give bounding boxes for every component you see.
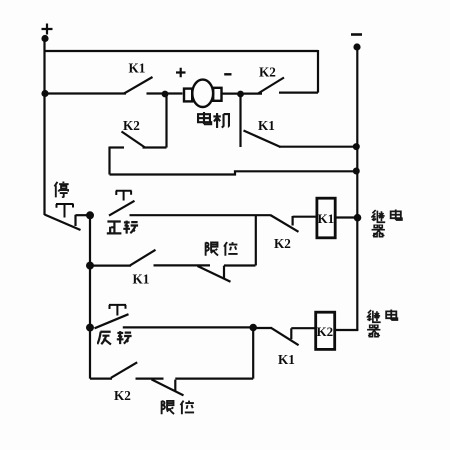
wire: reverse holding riser: [252, 328, 254, 379]
pushbutton 停 (stop, NC) actuator: [56, 204, 74, 218]
label: K1 interlock: [278, 352, 295, 367]
wire: right supply rail: [356, 47, 358, 330]
pushbutton 正转 (forward, NO) actuator: [116, 191, 132, 201]
pushbutton 正转 contact arm: [109, 201, 135, 216]
wire: reverse button to holding junction: [123, 326, 253, 328]
label: relay 继电器 (upper): [372, 210, 402, 237]
label: motor name 电机: [198, 112, 230, 128]
limit switch 限位 (NC, reverse) arm: [152, 379, 184, 395]
node: motor + junction: [162, 91, 169, 98]
contact K2 interlock fixed stub: [292, 216, 294, 226]
motor - polarity mark: [224, 73, 231, 75]
node: left rail / motor row junction: [41, 90, 48, 97]
limit switch 限位 (NC, forward) arm: [198, 266, 231, 282]
wire: lower contact row left segment: [110, 146, 125, 148]
pushbutton 反转 contact arm: [95, 314, 129, 328]
limit switch fixed stub: [174, 380, 176, 392]
node: - supply terminal dot: [353, 43, 360, 50]
wire: stop button to forward junction: [76, 214, 91, 216]
label: 限位 (forward): [206, 242, 238, 256]
wire: return row corner drop: [108, 147, 110, 175]
contact K2 (NO, motor + return): [122, 118, 146, 148]
svg-text:K1: K1: [318, 211, 335, 226]
relay coil K1: [317, 198, 335, 238]
wire: motor + drop to lower contact row: [165, 94, 167, 148]
contact K1 (NO, motor + feed): [124, 60, 153, 93]
wire: interlock K2 to relay coil K1: [293, 216, 317, 218]
node: right rail upper return junction: [353, 143, 360, 150]
svg-text:K2: K2: [274, 236, 291, 251]
svg-text:K1: K1: [133, 272, 150, 287]
wire: holding row from column to contact K1: [90, 265, 131, 267]
wire: top horizontal bus: [45, 50, 319, 52]
wire: holding contact K2 to limit switch: [136, 378, 164, 380]
relay coil K2: [316, 312, 335, 349]
wire: bottom return bus to right rail: [110, 171, 358, 174]
node: reverse branch junction: [249, 324, 257, 332]
pushbutton 停 fixed contact stub: [74, 215, 76, 226]
limit switch fixed stub: [223, 266, 225, 279]
label: K2 interlock: [274, 236, 291, 251]
wire: contact K2 to top bus drop: [279, 91, 318, 93]
svg-text:K2: K2: [317, 324, 334, 339]
svg-text:K2: K2: [259, 65, 276, 80]
wire: limit switch to reverse branch junction: [175, 378, 253, 380]
node: right rail lower return junction: [353, 168, 360, 175]
wire: top bus right drop to K2 contact: [317, 50, 319, 93]
node: + supply terminal dot: [41, 35, 48, 42]
wire: junction to interlock K1: [253, 327, 272, 329]
wire: limit switch to forward branch drop: [224, 264, 256, 266]
label: 停: [54, 182, 68, 198]
contact K1 (NO holding, forward): [130, 250, 156, 287]
pushbutton 停 contact arm: [45, 215, 81, 231]
wire: motor row from left rail to contact K1: [45, 92, 127, 94]
node: control column top junction: [86, 211, 94, 219]
wire: motor - drop to lower contact row: [239, 94, 241, 147]
wire: coil K1 to right rail: [335, 216, 357, 218]
contact K1 (NC interlock, reverse branch) arm: [272, 328, 299, 345]
minus terminal label: [351, 33, 362, 36]
wire: contact K1 to right rail: [279, 146, 357, 148]
wire: left supply rail: [43, 39, 45, 216]
contact K2 (NO, motor - feed): [258, 65, 284, 94]
svg-text:K2: K2: [114, 388, 131, 403]
label: 限位 (reverse): [162, 401, 195, 415]
node: coil K1 / right rail junction: [354, 214, 362, 222]
label: 反转: [97, 331, 131, 344]
node: motor - junction: [237, 91, 244, 98]
wire: forward branch drop to holding row: [255, 215, 257, 265]
plus terminal label: [42, 24, 53, 35]
label: relay 继电器 (lower): [367, 310, 397, 337]
wire: forward button to interlock K2: [130, 214, 271, 216]
pushbutton 反转 (reverse, NO) actuator: [109, 305, 126, 316]
contact K1 interlock fixed stub: [290, 328, 292, 339]
contact K2 (NC interlock, forward branch) arm: [270, 215, 298, 232]
motor M1: [184, 80, 222, 107]
svg-text:K1: K1: [278, 352, 295, 367]
svg-text:K1: K1: [258, 118, 275, 133]
node: reverse row junction: [86, 324, 94, 332]
node: holding row junction: [86, 262, 94, 270]
svg-text:K2: K2: [123, 118, 140, 133]
contact K1 (NO, motor - return): [244, 118, 281, 147]
wire: holding contact to limit switch: [154, 264, 211, 266]
wire: motor - to contact K2: [221, 92, 262, 94]
wire: coil K2 to right rail: [335, 329, 359, 331]
wire: control column vertical: [89, 215, 91, 378]
motor + polarity mark: [176, 68, 186, 77]
wire: reverse holding row from column corner: [90, 378, 112, 380]
svg-text:K1: K1: [129, 60, 146, 75]
label: 正转: [107, 221, 138, 234]
contact K2 (NO holding, reverse): [111, 362, 137, 403]
wire: interlock K1 to relay coil K2: [291, 327, 316, 329]
wire: contact K2 to motor + drop: [143, 146, 167, 148]
wire: contact K1 to motor +: [147, 92, 183, 94]
